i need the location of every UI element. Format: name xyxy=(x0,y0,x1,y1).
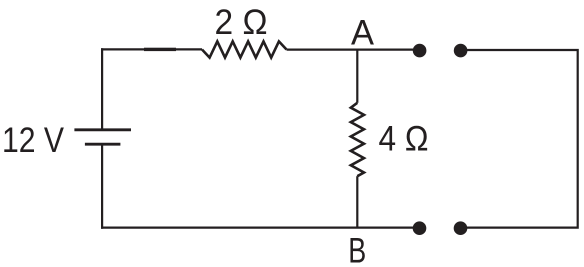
wire top overlap thick segment xyxy=(144,48,176,51)
wire top right segment to terminal xyxy=(287,48,420,50)
svg-text:A: A xyxy=(351,13,375,52)
wire left vertical upper (to battery) xyxy=(101,48,103,130)
terminal dot top-right xyxy=(454,44,468,58)
resistor R1 2 ohm zigzag xyxy=(202,41,287,57)
svg-text:B: B xyxy=(348,231,366,267)
terminal dot bottom-left xyxy=(413,221,427,235)
battery V1 negative plate xyxy=(85,143,121,146)
svg-text:2 Ω: 2 Ω xyxy=(215,3,268,42)
wire right loop xyxy=(461,50,578,228)
battery V1 positive plate xyxy=(74,128,131,131)
svg-text:4 Ω: 4 Ω xyxy=(379,119,429,158)
terminal dot bottom-right xyxy=(454,221,468,235)
wire bottom horizontal segment xyxy=(101,227,420,229)
resistor R2 4 ohm zigzag xyxy=(351,103,364,176)
wire middle vertical from resistor to node B xyxy=(356,176,358,227)
wire top-left horizontal segment xyxy=(101,48,202,50)
wire left vertical lower (battery to bottom) xyxy=(101,144,103,229)
wire middle vertical from node A to resistor xyxy=(356,49,358,102)
svg-text:12 V: 12 V xyxy=(2,121,65,160)
terminal dot top-left xyxy=(413,44,427,58)
